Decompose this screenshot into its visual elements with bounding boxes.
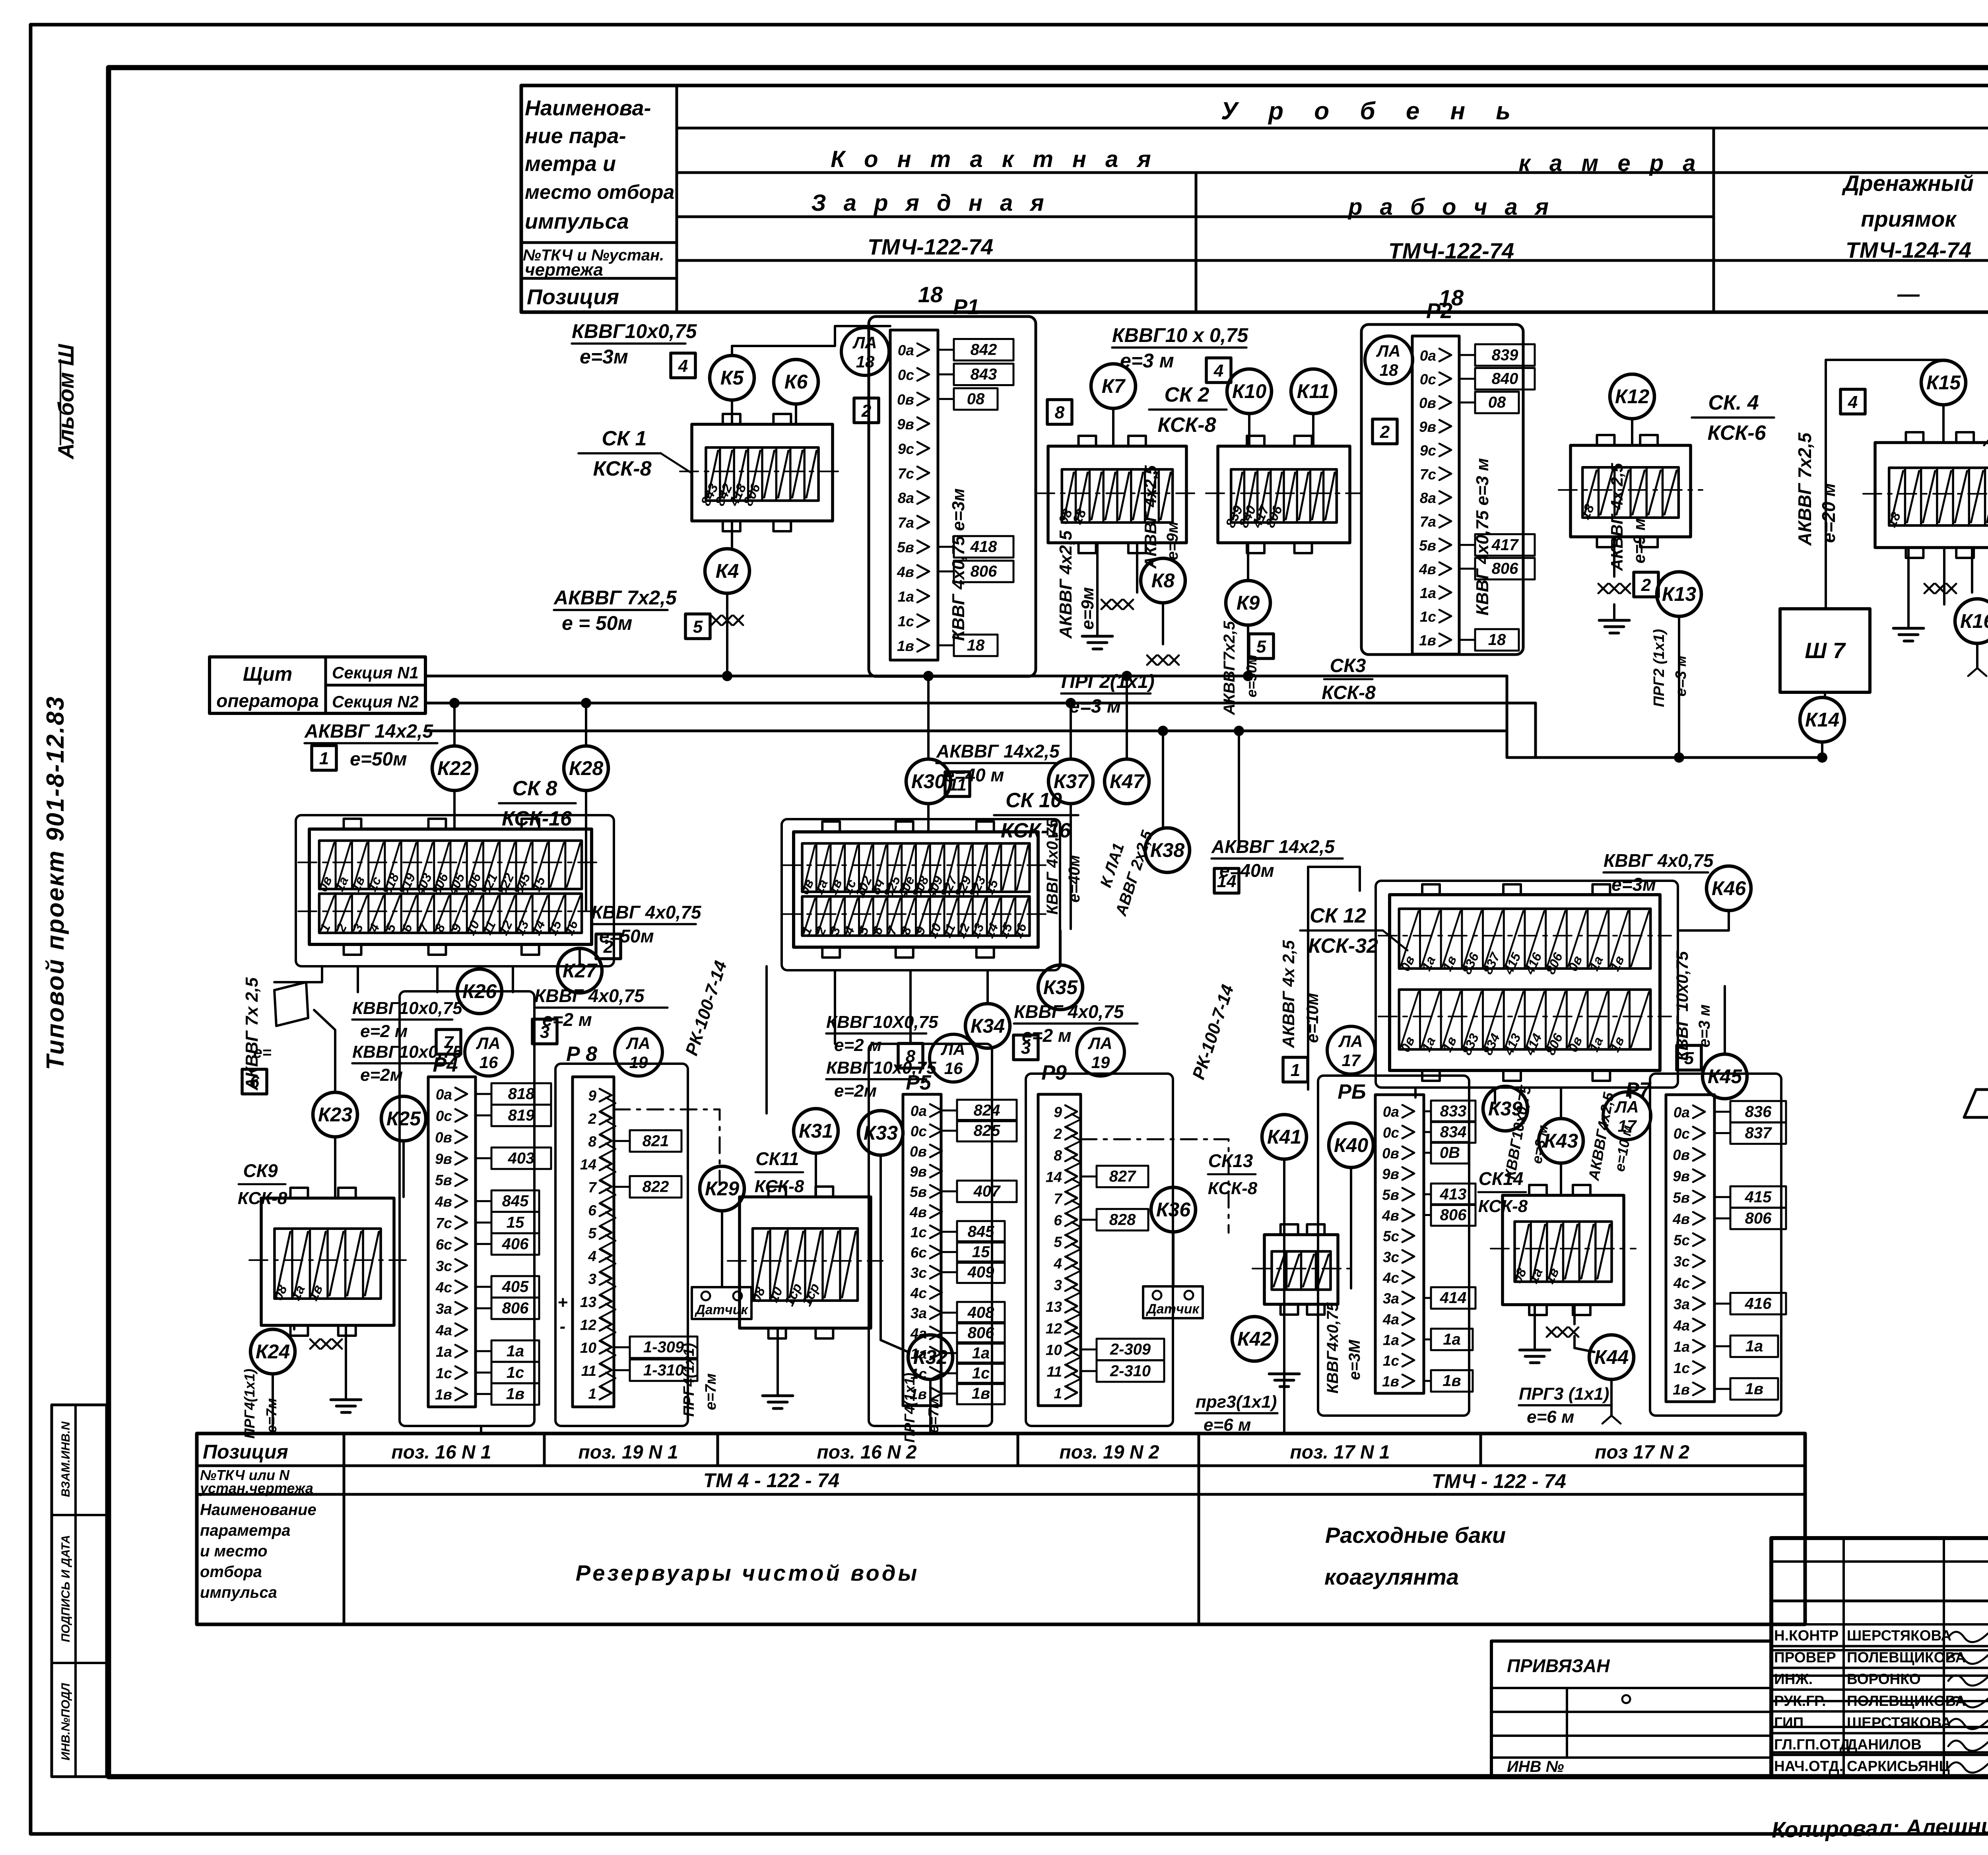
cable marker К43: [1539, 1119, 1583, 1163]
strip outline: [890, 330, 938, 660]
svg-text:415: 415: [1745, 1188, 1772, 1206]
wire number 845: [941, 1231, 957, 1233]
svg-text:0с: 0с: [1673, 1126, 1690, 1142]
svg-text:5с: 5с: [1673, 1232, 1690, 1249]
title block horizontal lines: [1771, 1560, 1988, 1563]
cable marker К23: [313, 1092, 357, 1137]
dash-dot Р9 to РК: [1081, 1139, 1229, 1233]
svg-text:АКВВГ 4х 2,5: АКВВГ 4х 2,5: [1279, 940, 1298, 1049]
svg-text:4: 4: [1848, 392, 1858, 412]
cable loop Р6: [1318, 1076, 1469, 1416]
wire number 417: [1459, 544, 1475, 546]
svg-text:Секция N1: Секция N1: [332, 663, 419, 682]
svg-text:КВВГ10х0,75: КВВГ10х0,75: [352, 998, 462, 1018]
svg-text:поз. 19 N 1: поз. 19 N 1: [578, 1442, 678, 1463]
svg-text:0в: 0в: [1382, 1145, 1399, 1162]
cable termination: [1547, 1327, 1556, 1337]
wire number 806: [941, 1332, 957, 1334]
terminal box: [261, 1198, 394, 1325]
wire number 1в: [1424, 1380, 1431, 1382]
svg-text:0с: 0с: [898, 367, 914, 383]
cable number box 3: [532, 1019, 557, 1044]
cable marker К37: [1048, 759, 1093, 804]
title block vertical lines: [1842, 1538, 1845, 1777]
svg-text:е=50м: е=50м: [350, 749, 407, 770]
placeholder parallelogram small: [274, 982, 308, 1026]
svg-text:К44: К44: [1594, 1346, 1629, 1368]
strip outline: [903, 1094, 941, 1406]
wire bus-К37: [1070, 703, 1072, 758]
wire number 825: [941, 1130, 957, 1132]
svg-text:2: 2: [1641, 575, 1651, 595]
svg-text:4: 4: [678, 356, 688, 376]
svg-text:е=2м: е=2м: [834, 1081, 877, 1101]
svg-text:1а: 1а: [1745, 1338, 1763, 1355]
cable loop СК12: [1376, 881, 1678, 1088]
svg-text:825: 825: [974, 1122, 1000, 1140]
cable marker К24: [250, 1329, 295, 1374]
wire СК1-К4: [731, 521, 733, 549]
svg-text:2-310: 2-310: [1110, 1362, 1151, 1380]
svg-text:17: 17: [1342, 1051, 1361, 1070]
wire К10-СК3: [1248, 414, 1250, 446]
device circle ЛА/19: [615, 1028, 662, 1076]
wire number 415: [1714, 1196, 1730, 1198]
wire number 839: [1459, 354, 1475, 356]
svg-text:Щит: Щит: [243, 663, 292, 685]
svg-text:1в: 1в: [506, 1385, 524, 1403]
cable marker К41: [1262, 1115, 1307, 1159]
wire number 806: [1714, 1217, 1730, 1219]
box Ш7: [1780, 609, 1870, 692]
cable marker К8: [1141, 558, 1185, 603]
svg-text:е=3 м: е=3 м: [1696, 1004, 1713, 1048]
cable marker К13: [1657, 572, 1701, 616]
title block frame: [1771, 1538, 1988, 1777]
svg-text:17: 17: [1618, 1117, 1637, 1135]
svg-text:1в: 1в: [1673, 1381, 1690, 1398]
wire number 806: [476, 1307, 491, 1309]
svg-text:19: 19: [1091, 1053, 1110, 1072]
svg-text:Позиция: Позиция: [527, 285, 619, 309]
svg-text:12: 12: [580, 1317, 597, 1333]
cable termination: [1147, 655, 1157, 665]
svg-text:413: 413: [1440, 1185, 1467, 1203]
svg-text:ГЛ.ГП.ОТД: ГЛ.ГП.ОТД: [1774, 1736, 1850, 1752]
svg-text:оператора: оператора: [216, 690, 319, 711]
svg-text:7а: 7а: [1420, 514, 1436, 530]
bottom table column lines: [543, 1433, 546, 1466]
svg-text:1а: 1а: [436, 1344, 452, 1360]
strip outline: [428, 1077, 476, 1407]
svg-text:ШЕРСТЯКОВА: ШЕРСТЯКОВА: [1847, 1628, 1951, 1644]
svg-text:5: 5: [1256, 637, 1266, 657]
terminal box: [1503, 1195, 1624, 1305]
svg-text:14: 14: [1217, 872, 1237, 891]
wire number 837: [1714, 1132, 1730, 1134]
svg-text:827: 827: [1109, 1168, 1136, 1185]
wire number 2-310: [1081, 1370, 1097, 1372]
wire number 1а: [1714, 1345, 1730, 1347]
wire number 416: [1714, 1303, 1730, 1305]
wire number 18: [938, 644, 954, 646]
svg-text:0а: 0а: [436, 1086, 452, 1103]
cable number box 4: [1206, 358, 1231, 383]
svg-text:КВВГ4х0,75: КВВГ4х0,75: [1324, 1302, 1342, 1394]
svg-text:е = 50м: е = 50м: [562, 612, 632, 634]
strip outline: [1375, 1095, 1424, 1393]
svg-text:ЛА: ЛА: [1087, 1034, 1112, 1053]
svg-text:Р5: Р5: [906, 1071, 932, 1094]
svg-text:0в: 0в: [897, 391, 914, 408]
wire number 15: [941, 1251, 957, 1253]
svg-text:5в: 5в: [910, 1184, 927, 1200]
svg-text:0В: 0В: [1440, 1144, 1460, 1162]
svg-text:Альбом Ш: Альбом Ш: [53, 344, 78, 460]
svg-text:АКВВГ7х2,5: АКВВГ7х2,5: [1221, 621, 1238, 715]
wire К33-К32 down: [879, 1155, 882, 1324]
cable marker К25: [381, 1096, 426, 1141]
svg-text:ПРГ2 (1х1): ПРГ2 (1х1): [1651, 629, 1668, 707]
svg-text:818: 818: [508, 1085, 535, 1103]
wire К15 riser: [1826, 360, 1943, 374]
svg-text:К35: К35: [1043, 976, 1078, 998]
svg-text:1а: 1а: [1443, 1331, 1461, 1348]
cable marker К42: [1232, 1317, 1277, 1361]
terminal box: [1875, 443, 1988, 548]
svg-text:Датчик: Датчик: [1145, 1301, 1200, 1317]
svg-text:6: 6: [250, 1072, 260, 1092]
svg-text:5: 5: [588, 1225, 597, 1241]
svg-text:прг3(1х1): прг3(1х1): [1196, 1392, 1277, 1412]
svg-text:КВВГ 4х0,75 е=3м: КВВГ 4х0,75 е=3м: [949, 488, 968, 641]
bus line B: [425, 702, 1536, 705]
svg-text:1с: 1с: [436, 1365, 452, 1381]
svg-text:К29: К29: [705, 1177, 740, 1200]
wire СК3-К9: [1247, 543, 1249, 581]
svg-text:САРКИСЬЯНЦ: САРКИСЬЯНЦ: [1847, 1758, 1950, 1774]
СК5 legs down: [1907, 548, 1910, 612]
svg-text:К31: К31: [799, 1120, 833, 1142]
ground СК11: [777, 1328, 779, 1380]
svg-text:1в: 1в: [1382, 1373, 1399, 1390]
svg-text:У р о б е н ь: У р о б е н ь: [1221, 97, 1522, 125]
wire number 833: [1424, 1110, 1431, 1112]
bus line C: [425, 730, 1507, 732]
svg-text:414: 414: [1440, 1289, 1467, 1307]
wire number 1в: [1714, 1388, 1730, 1390]
cable marker К36: [1151, 1187, 1196, 1232]
cable marker К46: [1706, 866, 1751, 911]
svg-text:поз. 16 N 1: поз. 16 N 1: [391, 1442, 491, 1463]
svg-text:КВВГ10х0,75: КВВГ10х0,75: [572, 320, 697, 342]
svg-text:ТМЧ-122-74: ТМЧ-122-74: [868, 234, 993, 259]
svg-text:е=3 м: е=3 м: [1673, 655, 1689, 696]
terminal box: [1571, 445, 1691, 537]
svg-text:6: 6: [1054, 1212, 1062, 1228]
wire К44 link: [1574, 1336, 1594, 1352]
svg-text:е=9м: е=9м: [1078, 587, 1097, 629]
svg-text:ЛА: ЛА: [1338, 1032, 1363, 1051]
svg-text:407: 407: [973, 1183, 1001, 1200]
cable number box 6: [242, 1069, 267, 1094]
cable marker К16: [1955, 599, 1988, 643]
wire К13 down: [1678, 616, 1680, 758]
ground: [1096, 620, 1099, 636]
svg-text:ИНВ №: ИНВ №: [1507, 1758, 1564, 1775]
svg-text:13: 13: [580, 1294, 597, 1310]
svg-text:0с: 0с: [436, 1108, 452, 1124]
svg-text:-: -: [560, 1317, 566, 1336]
top table column dividers: [1195, 173, 1198, 312]
wire bus drop 3116: [1238, 731, 1240, 849]
wire К4 down to bus: [726, 593, 728, 676]
svg-text:е=10м: е=10м: [1303, 993, 1322, 1043]
svg-text:К41: К41: [1267, 1126, 1301, 1148]
svg-text:КВВГ 4х0,75: КВВГ 4х0,75: [534, 985, 645, 1006]
wire number 407: [941, 1191, 957, 1193]
ground: [777, 1380, 779, 1396]
bus step down: [1507, 676, 1822, 758]
terminal block: [1390, 895, 1660, 1070]
wire К30-СК10: [927, 804, 930, 832]
svg-text:2: 2: [603, 937, 613, 957]
svg-text:12: 12: [1046, 1320, 1062, 1336]
cable loop Р4: [400, 991, 534, 1426]
svg-text:9в: 9в: [897, 416, 914, 432]
svg-text:Копировал: Алешникова: Копировал: Алешникова: [1771, 1812, 1988, 1842]
svg-text:840: 840: [1492, 370, 1518, 387]
svg-text:ЛА: ЛА: [625, 1034, 650, 1053]
wire number 418: [938, 546, 954, 548]
svg-text:е=9м: е=9м: [1164, 521, 1181, 560]
device circle ЛА/17: [1603, 1092, 1651, 1140]
svg-text:9в: 9в: [1673, 1168, 1690, 1185]
svg-text:К5: К5: [720, 367, 744, 389]
wire number 843: [938, 373, 954, 375]
wire К12-СК4: [1631, 419, 1633, 445]
wire Ш7-К14: [1824, 692, 1826, 697]
svg-text:5: 5: [1684, 1049, 1694, 1068]
junction dots on bus: [449, 698, 460, 708]
svg-text:836: 836: [1745, 1103, 1772, 1121]
wire number 806: [1459, 568, 1475, 570]
wire К40 down: [1350, 1167, 1352, 1288]
cable marker К14: [1800, 697, 1844, 742]
cable marker К33: [858, 1111, 903, 1155]
svg-text:1: 1: [319, 749, 329, 768]
box Щит оператора: [210, 657, 425, 713]
svg-text:8: 8: [588, 1133, 596, 1150]
cable number box 5: [685, 614, 710, 639]
svg-text:Дренажный: Дренажный: [1842, 171, 1974, 196]
svg-text:ние пара-: ние пара-: [525, 124, 626, 148]
cable loop СК8: [296, 815, 614, 966]
svg-text:ПРИВЯЗАН: ПРИВЯЗАН: [1507, 1655, 1610, 1676]
svg-text:К4: К4: [716, 560, 739, 582]
wire К16 tail: [1976, 643, 1978, 668]
svg-text:К22: К22: [437, 757, 472, 779]
svg-text:К10: К10: [1232, 380, 1267, 402]
svg-text:е=7м: е=7м: [925, 1398, 942, 1433]
svg-text:е=: е=: [253, 1044, 272, 1061]
svg-text:поз 17 N 2: поз 17 N 2: [1595, 1442, 1689, 1463]
svg-text:3а: 3а: [1383, 1290, 1399, 1307]
cable marker К28: [564, 746, 608, 791]
cable into СК12 top: [1308, 867, 1360, 891]
svg-text:4в: 4в: [1672, 1211, 1690, 1227]
svg-text:р а б о ч а я: р а б о ч а я: [1347, 194, 1554, 220]
cable marker К40: [1329, 1123, 1373, 1167]
wire К27 up: [579, 948, 581, 966]
svg-text:+: +: [557, 1293, 568, 1312]
svg-text:ПРГ3 (1х1): ПРГ3 (1х1): [1519, 1384, 1609, 1404]
cable loop Р2: [1361, 324, 1523, 655]
svg-text:З а р я д н а я: З а р я д н а я: [811, 190, 1049, 216]
svg-text:К40: К40: [1334, 1134, 1369, 1156]
wire К14 to bus: [1821, 742, 1823, 758]
svg-text:16: 16: [944, 1059, 963, 1078]
svg-text:е=20 м: е=20 м: [1818, 483, 1839, 543]
svg-text:К6: К6: [784, 371, 808, 393]
cable marker К6: [774, 359, 818, 404]
wire number 827: [1081, 1175, 1097, 1177]
svg-text:ИНЖ.: ИНЖ.: [1774, 1671, 1813, 1687]
wire К22-СК8: [453, 791, 456, 829]
wire К43-СК14: [1560, 1163, 1562, 1195]
svg-text:5с: 5с: [1383, 1228, 1400, 1245]
svg-text:и место: и место: [200, 1542, 268, 1560]
wire bus-К47: [1126, 676, 1128, 758]
cable marker К30: [906, 759, 951, 804]
svg-text:403: 403: [508, 1150, 535, 1167]
wire number 821: [614, 1140, 630, 1142]
cable number box 3: [1013, 1035, 1038, 1060]
svg-text:1а: 1а: [507, 1342, 524, 1360]
wire К31 down: [815, 1153, 817, 1197]
cable number box 2: [1634, 572, 1658, 597]
cable marker К47: [1105, 759, 1149, 804]
svg-text:806: 806: [968, 1324, 994, 1342]
svg-text:ВЗАМ.ИНВ.N: ВЗАМ.ИНВ.N: [59, 1421, 72, 1497]
svg-text:1в: 1в: [435, 1387, 452, 1403]
svg-text:0а: 0а: [898, 342, 914, 359]
svg-text:—: —: [1897, 281, 1920, 306]
title block signatures: [1948, 1632, 1988, 1642]
leader СК5: [1984, 414, 1988, 445]
svg-text:3а: 3а: [1673, 1296, 1690, 1312]
svg-text:отбора: отбора: [200, 1563, 262, 1581]
svg-text:821: 821: [643, 1132, 669, 1150]
svg-text:ТМЧ-124-74: ТМЧ-124-74: [1846, 237, 1971, 262]
svg-text:ТМ 4 - 122 - 74: ТМ 4 - 122 - 74: [703, 1469, 839, 1492]
svg-text:1с: 1с: [972, 1365, 990, 1382]
wire mid cluster to table: [929, 1426, 932, 1433]
svg-text:КВВГ10Х0,75: КВВГ10Х0,75: [826, 1012, 938, 1032]
svg-text:1а: 1а: [898, 589, 914, 605]
wire number 08: [938, 398, 954, 400]
wire number 414: [1424, 1297, 1431, 1299]
top table header column: [676, 85, 678, 312]
cable loop Р1: [869, 317, 1036, 676]
svg-text:К9: К9: [1237, 592, 1260, 614]
box ПРИВЯЗАН: [1491, 1641, 1771, 1777]
svg-text:3: 3: [1054, 1277, 1062, 1294]
svg-text:3а: 3а: [911, 1305, 927, 1321]
wire СК9-К24: [293, 1325, 295, 1329]
wire left cluster to table: [480, 1426, 482, 1433]
wire number 819: [476, 1115, 491, 1117]
svg-text:метра и: метра и: [525, 152, 616, 176]
svg-text:К15: К15: [1926, 371, 1961, 394]
svg-text:4: 4: [1053, 1255, 1062, 1272]
device circle ЛА/18: [1365, 336, 1413, 384]
svg-text:ЛА: ЛА: [852, 333, 877, 352]
svg-text:3: 3: [588, 1271, 596, 1287]
wire number 403: [476, 1157, 491, 1159]
svg-text:4: 4: [1213, 361, 1223, 381]
svg-text:18: 18: [1488, 631, 1506, 649]
svg-text:18: 18: [967, 637, 985, 654]
svg-text:11: 11: [1047, 1364, 1062, 1380]
svg-text:4с: 4с: [910, 1285, 927, 1301]
terminal box: [740, 1197, 871, 1328]
bottom table row lines: [197, 1465, 1805, 1467]
svg-text:ПРГ4(1х1): ПРГ4(1х1): [681, 1343, 697, 1417]
svg-text:Типовой проект 901-8-12.83: Типовой проект 901-8-12.83: [42, 695, 69, 1070]
wire К32 down: [929, 1379, 932, 1433]
svg-text:Р1: Р1: [953, 295, 979, 319]
cable number box 11: [945, 772, 970, 796]
wire К32 link: [881, 1324, 908, 1352]
svg-text:е=2 м: е=2 м: [834, 1035, 881, 1055]
cable marker К27: [557, 948, 602, 993]
ground: [345, 1384, 347, 1400]
svg-text:РУК.ГР.: РУК.ГР.: [1774, 1693, 1826, 1709]
svg-text:7а: 7а: [898, 515, 914, 531]
device circle ЛА/19: [1077, 1028, 1124, 1076]
terminal box: [1264, 1235, 1338, 1304]
svg-text:6с: 6с: [436, 1236, 452, 1253]
svg-text:5в: 5в: [1419, 537, 1436, 554]
svg-text:839: 839: [1492, 346, 1518, 364]
svg-text:1а: 1а: [1420, 585, 1436, 601]
svg-text:2-309: 2-309: [1110, 1341, 1151, 1358]
wire number 1-309: [614, 1346, 630, 1348]
svg-text:845: 845: [502, 1193, 529, 1210]
svg-text:е=40м: е=40м: [1066, 855, 1083, 903]
terminal block: [794, 832, 1038, 947]
leader СК12: [1383, 930, 1408, 950]
ground: [1534, 1334, 1536, 1350]
svg-text:К42: К42: [1237, 1328, 1272, 1350]
cable number box 1: [312, 746, 336, 770]
terminal block: [309, 829, 592, 944]
wire К35 up: [1059, 965, 1062, 966]
cable termination: [1101, 600, 1111, 609]
cable marker К32: [908, 1335, 953, 1379]
svg-text:ТМЧ - 122 - 74: ТМЧ - 122 - 74: [1432, 1470, 1566, 1492]
wire number 1а: [476, 1350, 491, 1352]
svg-text:1с: 1с: [1383, 1353, 1400, 1369]
svg-text:1в: 1в: [897, 638, 914, 654]
svg-text:819: 819: [508, 1107, 535, 1124]
wire К26 up: [478, 966, 481, 969]
svg-text:КСК-8: КСК-8: [1322, 682, 1376, 703]
svg-text:0в: 0в: [1419, 395, 1436, 411]
svg-text:5: 5: [693, 617, 703, 637]
svg-text:843: 843: [971, 365, 997, 383]
